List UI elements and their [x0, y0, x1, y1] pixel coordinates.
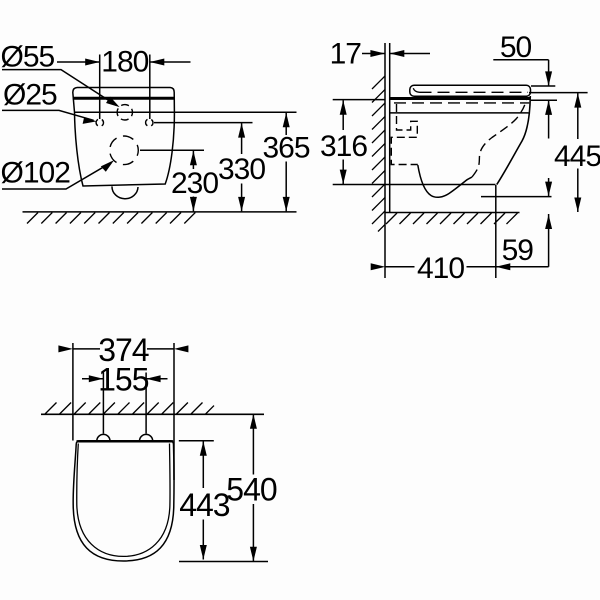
seat hinge detail [413, 88, 419, 92]
dimension 443 [179, 441, 230, 560]
dimension 410 [371, 185, 549, 285]
svg-text:330: 330 [218, 153, 265, 186]
floor line side view [385, 212, 520, 214]
svg-text:445: 445 [554, 140, 600, 173]
dimension 540 [179, 414, 277, 561]
rim bottom line side view [390, 112, 529, 114]
seat outline plan view (inner) [77, 444, 170, 557]
svg-text:540: 540 [226, 472, 277, 508]
svg-text:180: 180 [101, 46, 148, 79]
inner bowl hidden curve (dashed) [472, 97, 527, 178]
dimension 365 [262, 113, 309, 212]
svg-text:17: 17 [330, 38, 362, 71]
svg-text:Ø55: Ø55 [1, 40, 55, 73]
svg-text:230: 230 [171, 167, 218, 200]
dimension 59 [502, 178, 552, 267]
flush channel hidden outline (dashed) [391, 104, 418, 165]
svg-text:365: 365 [262, 132, 309, 165]
wall line outer [384, 43, 386, 278]
bolt hole right (semicircle) [140, 434, 153, 441]
rim hidden line (dashed) [394, 102, 529, 104]
outlet semicircle [112, 186, 138, 198]
seat band side view (thick) [390, 97, 530, 100]
dimension 374 [58, 332, 188, 480]
label Ø102 with leader [1, 156, 115, 189]
wall hatching plan view [45, 403, 214, 415]
dimension 316 [320, 100, 385, 185]
circle Ø55 (dashed) [117, 105, 132, 120]
wall hatching [372, 76, 385, 232]
svg-text:59: 59 [502, 234, 534, 267]
floor hatching front view [27, 213, 195, 224]
svg-text:316: 316 [320, 130, 367, 163]
seat outline plan view (outer) [73, 441, 174, 561]
dimension 50 [493, 31, 557, 139]
bowl bottom line side view with 316 extension [333, 184, 496, 186]
label Ø25 with leader [2, 78, 97, 124]
svg-text:Ø102: Ø102 [1, 156, 71, 189]
dimension 155 [82, 361, 168, 433]
svg-text:443: 443 [179, 487, 230, 523]
floor hatching side view [386, 213, 518, 224]
svg-text:155: 155 [98, 361, 149, 397]
wall line plan view [41, 413, 264, 415]
trap curve (solid) [418, 165, 472, 197]
outlet bottom line side view [481, 196, 552, 198]
floor line front view [23, 211, 297, 213]
dimension 445 [529, 93, 600, 212]
bowl front curve side view [497, 96, 531, 185]
seat top edge plan view (thick) [77, 440, 174, 442]
dimension 230 [140, 150, 218, 211]
seat band front view (thick) [73, 97, 175, 100]
rim line front view, extends right as 365 extension line [74, 111, 296, 113]
dimension 17 [330, 38, 430, 71]
svg-text:410: 410 [417, 252, 464, 285]
circle Ø25 right (dashed) [146, 119, 153, 126]
dimension 180 [57, 46, 191, 120]
dimension 330 [154, 123, 265, 212]
label Ø55 with leader [1, 40, 120, 107]
circle Ø25 left (dashed) [96, 119, 103, 126]
toilet body front outline [73, 88, 175, 187]
lid side view [410, 85, 531, 96]
svg-text:Ø25: Ø25 [3, 78, 57, 111]
bolt hole left (semicircle) [97, 434, 110, 441]
seat hidden line (dashed) in lid [420, 91, 529, 93]
wall line inner [389, 43, 391, 213]
circle Ø102 (dashed) [110, 136, 139, 165]
